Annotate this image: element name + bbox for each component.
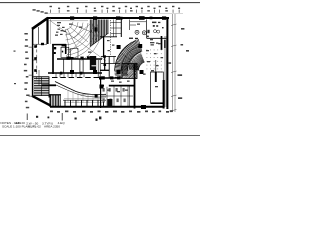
svg-text:AREA 2350: AREA 2350	[44, 125, 60, 129]
svg-text:B1 PL-02: B1 PL-02	[28, 125, 41, 129]
